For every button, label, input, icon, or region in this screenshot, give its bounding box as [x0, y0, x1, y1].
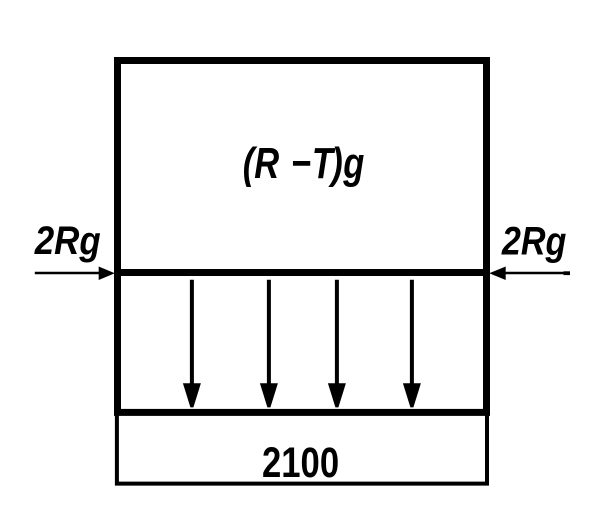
label 2Rg right: [501, 219, 566, 263]
down arrow 4: [403, 280, 421, 408]
label 2100: [262, 440, 339, 487]
svg-text:(R: (R: [243, 139, 280, 188]
down arrow 2: [260, 280, 278, 408]
svg-text:2Rg: 2Rg: [34, 218, 101, 263]
label 2Rg left: [34, 218, 101, 263]
dimension box: [117, 413, 487, 484]
svg-text:g: g: [342, 139, 364, 188]
svg-text:2100: 2100: [262, 440, 339, 487]
svg-text:T): T): [312, 139, 342, 188]
svg-text:−: −: [291, 139, 311, 188]
label (R-T)g: [243, 139, 365, 188]
mid line: [114, 269, 490, 276]
right arrow: [489, 267, 570, 281]
block outline: [118, 61, 487, 413]
down arrow 3: [328, 280, 346, 408]
left arrow: [35, 267, 115, 281]
down arrow 1: [183, 280, 201, 408]
svg-text:2Rg: 2Rg: [501, 219, 566, 263]
